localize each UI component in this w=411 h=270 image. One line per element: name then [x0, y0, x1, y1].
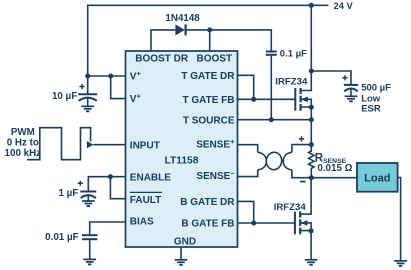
- polarity plus RSENSE top: [299, 136, 304, 141]
- capacitor C3 500uF plates: [344, 84, 358, 86]
- node T SOURCE column junction: [309, 117, 314, 122]
- IC U1 LT1158 body: [126, 51, 238, 247]
- ground 500uF: [345, 96, 358, 101]
- wire INPUT from PWM arrow: [93, 144, 125, 146]
- svg-text:T GATE FB: T GATE FB: [182, 95, 234, 106]
- wire bottom MOSFET drain lead up to sense bottom node: [300, 178, 311, 214]
- wire 0.01uF lower lead: [89, 240, 91, 259]
- svg-text:T SOURCE: T SOURCE: [183, 115, 235, 126]
- wire B GATE DR jog down to B GATE FB: [238, 201, 254, 223]
- svg-text:1N4148: 1N4148: [165, 13, 200, 24]
- wire BOOST DR riser to diode anode: [151, 30, 175, 51]
- wire T GATE DR jog down to T GATE FB: [238, 75, 254, 99]
- node B GATE junction: [251, 221, 256, 226]
- wire 500uF branch from drain node: [311, 71, 351, 84]
- capacitor C 500uF lower lead: [350, 89, 352, 97]
- svg-text:IRFZ34: IRFZ34: [275, 76, 308, 87]
- wire sense bottom node to Load: [311, 177, 357, 179]
- wire twist to R sense top: [292, 145, 311, 153]
- svg-text:500 µF: 500 µF: [361, 82, 391, 93]
- svg-text:INPUT: INPUT: [130, 140, 160, 151]
- wire T GATE FB to top MOSFET gate: [238, 98, 296, 100]
- capacitor C 10uF top lead: [87, 98, 89, 106]
- svg-text:SENSE–: SENSE–: [196, 169, 234, 183]
- transistor Q2 arrow: [300, 220, 307, 226]
- capacitor C4 1uF plates: [80, 191, 96, 193]
- svg-text:100 kHz: 100 kHz: [5, 148, 42, 159]
- node V+ pin2 junction: [108, 74, 113, 79]
- polarity minus RSENSE bottom: [300, 181, 305, 183]
- PWM square wave: [27, 128, 91, 160]
- node top MOSFET source junction: [309, 105, 314, 110]
- wire bottom MOSFET body lead: [300, 223, 311, 231]
- wire 0.1uF bottom lead down to T SOURCE: [270, 56, 272, 120]
- ground bottom MOSFET source: [305, 260, 318, 265]
- svg-text:BOOST: BOOST: [197, 54, 233, 65]
- wire 24V branch down to top MOSFET drain column: [310, 5, 312, 71]
- ground 10uF: [81, 106, 94, 111]
- wire B GATE FB to bottom MOSFET gate: [238, 222, 295, 224]
- ground IC GND: [175, 260, 188, 265]
- node sense- junction: [309, 175, 314, 180]
- node 24V rail junction: [309, 3, 314, 8]
- svg-text:IRFZ34: IRFZ34: [274, 202, 307, 213]
- wire BOOST pin drop from diode junction: [209, 30, 211, 51]
- ground Load: [394, 261, 407, 266]
- svg-text:BOOST DR: BOOST DR: [135, 54, 189, 65]
- svg-text:GND: GND: [174, 237, 196, 248]
- svg-text:ESR: ESR: [361, 103, 381, 114]
- wire V+ pin 2 branch: [111, 76, 126, 99]
- wire ENABLE to 1uF: [88, 177, 125, 191]
- wire top MOSFET body lead: [301, 99, 312, 107]
- transistor Q1 IRFZ34 top: [295, 88, 300, 111]
- svg-text:0 Hz to: 0 Hz to: [7, 138, 39, 149]
- node T SOURCE 0.1uF junction: [269, 117, 274, 122]
- svg-text:BIAS: BIAS: [130, 216, 154, 227]
- transistor Q2 IRFZ34 bottom: [295, 212, 300, 235]
- node drain/500uF junction: [309, 69, 314, 74]
- svg-text:ENABLE: ENABLE: [130, 172, 171, 183]
- wire 10uF hang from V+ node: [87, 76, 89, 93]
- svg-text:FAULT: FAULT: [130, 195, 161, 206]
- wire bottom MOSFET source lead to ground: [300, 231, 311, 260]
- capacitor C 1uF lower lead: [87, 195, 89, 201]
- node V+ rail junction: [85, 74, 90, 79]
- PWM input arrow: [87, 141, 94, 148]
- capacitor C5 0.01uF plates: [82, 234, 97, 236]
- wire top MOSFET drain lead: [301, 71, 312, 91]
- ground 1uF: [82, 201, 95, 206]
- polarity plus 1uF: [78, 181, 83, 186]
- svg-text:24 V: 24 V: [334, 0, 354, 11]
- svg-text:LT1158: LT1158: [165, 156, 199, 167]
- node sense+ junction: [309, 142, 314, 147]
- svg-text:PWM: PWM: [11, 127, 35, 138]
- svg-text:0.1 µF: 0.1 µF: [280, 49, 307, 60]
- load box: [357, 163, 398, 192]
- node diode-boost junction: [207, 27, 212, 32]
- wire SENSE- to twist: [238, 170, 258, 177]
- svg-text:SENSE+: SENSE+: [196, 137, 235, 151]
- twisted pair center eye: [265, 151, 283, 170]
- polarity plus 500uF: [342, 75, 347, 80]
- wire GND pin to ground: [180, 247, 182, 260]
- polarity plus 10uF: [78, 75, 348, 186]
- svg-text:T GATE DR: T GATE DR: [181, 71, 235, 82]
- ground 0.01uF: [83, 259, 96, 264]
- wire ENABLE/FAULT tie: [110, 177, 125, 199]
- twisted pair right loop: [283, 152, 292, 170]
- transistor Q1 arrow: [301, 97, 308, 103]
- svg-text:0.015 Ω: 0.015 Ω: [317, 163, 352, 174]
- wire Load to ground: [398, 178, 401, 261]
- node ENABLE/FAULT junction: [108, 174, 113, 179]
- wire SENSE+ to twist: [238, 145, 258, 153]
- wire twist to R sense bottom: [292, 170, 311, 178]
- svg-text:B GATE FB: B GATE FB: [181, 219, 234, 230]
- svg-text:0.01 µF: 0.01 µF: [45, 232, 78, 243]
- capacitor C2 0.1uF plates: [266, 51, 277, 53]
- svg-text:1 µF: 1 µF: [58, 188, 78, 199]
- node T GATE junction: [251, 97, 256, 102]
- wire top MOSFET source lead and column to sense resistor: [301, 107, 312, 145]
- svg-text:10 µF: 10 µF: [52, 91, 77, 102]
- wire T SOURCE: [238, 119, 312, 121]
- twisted pair left loop: [258, 152, 267, 170]
- wire BIAS to 0.01uF: [90, 222, 126, 234]
- resistor RSENSE zigzag: [309, 145, 314, 178]
- node bottom MOSFET source junction: [309, 228, 314, 233]
- wire diode cathode to 0.1uF corner: [186, 30, 272, 51]
- wire 24V top rail with left drop to V+ node: [88, 5, 329, 76]
- diode D1 1N4148: [175, 24, 185, 35]
- svg-text:B GATE DR: B GATE DR: [180, 197, 235, 208]
- svg-text:Load: Load: [364, 172, 390, 184]
- capacitor C1 10uF plates: [78, 93, 97, 95]
